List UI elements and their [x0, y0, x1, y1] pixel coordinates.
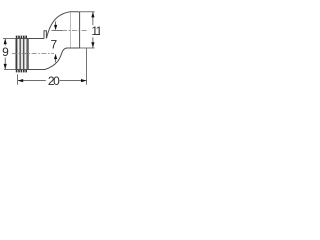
svg-text:9: 9	[2, 45, 9, 59]
svg-text:7: 7	[51, 38, 58, 52]
svg-text:20: 20	[48, 74, 60, 88]
svg-text:11: 11	[91, 24, 100, 38]
